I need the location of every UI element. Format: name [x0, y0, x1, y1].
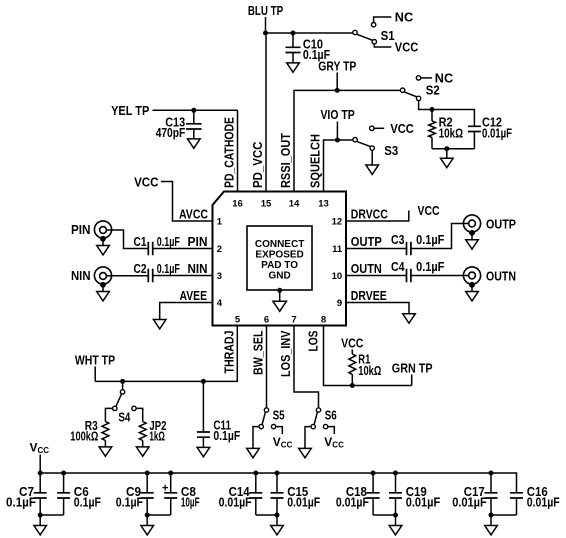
- node VCC (S6): [324, 435, 344, 450]
- svg-text:V: V: [324, 435, 332, 449]
- svg-text:0.1µF: 0.1µF: [416, 259, 444, 274]
- wire PIN to C1: [106, 230, 148, 249]
- ground (S3): [366, 165, 379, 174]
- pin numbers 12 11 10 9 (right): [332, 217, 343, 310]
- svg-text:0.01µF: 0.01µF: [287, 494, 320, 509]
- svg-text:14: 14: [289, 198, 300, 209]
- capacitor C4: [346, 259, 444, 282]
- capacitor C12: [432, 110, 512, 149]
- svg-text:10µF: 10µF: [181, 494, 200, 509]
- capacitor C18: [336, 471, 380, 516]
- resistor R1: [349, 350, 381, 386]
- capacitor C15: [271, 471, 321, 516]
- IC U1 16-pin package outline: [213, 192, 347, 326]
- wire pin8 net (LOS): [324, 326, 412, 389]
- ground (JP2): [136, 447, 149, 456]
- svg-text:V: V: [273, 435, 281, 449]
- svg-text:S6: S6: [325, 408, 337, 423]
- ground (OUTN connector): [466, 282, 479, 301]
- svg-text:AVEE: AVEE: [180, 288, 208, 303]
- wire cap pair ground join: [373, 513, 398, 526]
- connector OUTN (output SMA): [463, 267, 516, 284]
- node GRY TP: [318, 58, 356, 90]
- connector PIN (input SMA): [71, 221, 112, 238]
- wire VCC rail: [40, 473, 516, 493]
- svg-text:DRVEE: DRVEE: [351, 288, 387, 303]
- svg-text:VCC: VCC: [390, 121, 414, 136]
- svg-text:PIN: PIN: [188, 234, 208, 249]
- ground (PIN connector): [97, 236, 110, 255]
- svg-text:+: +: [162, 482, 168, 494]
- svg-text:10kΩ: 10kΩ: [439, 126, 464, 141]
- ground (S5): [247, 448, 260, 457]
- svg-text:WHT TP: WHT TP: [75, 352, 115, 367]
- wire cap pair ground join: [256, 513, 280, 526]
- ground (cap pair): [389, 526, 402, 535]
- svg-text:0.01µF: 0.01µF: [452, 494, 487, 509]
- svg-text:OUTP: OUTP: [351, 234, 382, 249]
- wire pin7 (LOS_INV) to S6: [294, 326, 319, 408]
- svg-text:15: 15: [261, 198, 272, 209]
- pin numbers 1-4 (left): [217, 217, 223, 310]
- svg-text:VCC: VCC: [134, 174, 159, 189]
- switch S5: [253, 408, 285, 449]
- ground (R2/C12): [441, 158, 454, 167]
- resistor JP2: [139, 414, 166, 447]
- svg-text:0.1µF: 0.1µF: [416, 232, 444, 247]
- svg-text:C2: C2: [134, 261, 147, 276]
- wire pin16 riser (PD_CATHODE): [191, 108, 237, 192]
- ground (AVEE): [153, 320, 166, 329]
- node VIO TP: [320, 107, 355, 140]
- svg-text:C1: C1: [134, 234, 147, 249]
- wire DRVEE (pin 9): [346, 303, 409, 314]
- resistor R3: [70, 414, 109, 447]
- svg-text:16: 16: [232, 198, 243, 209]
- pin numbers 5 6 7 8 (bottom): [235, 314, 326, 325]
- node VCC (AVCC pin 1): [134, 174, 212, 221]
- svg-text:0.1µF: 0.1µF: [157, 261, 180, 276]
- wire pin13 net (SQUELCH to S3): [324, 138, 354, 192]
- svg-text:PD_VCC: PD_VCC: [250, 141, 265, 188]
- ground (OUTP connector): [466, 230, 479, 249]
- ground (NIN connector): [97, 282, 110, 301]
- wire pin14 net (RSSI_OUT to S2): [294, 88, 403, 192]
- ground (S6): [299, 448, 312, 457]
- svg-text:5: 5: [235, 314, 241, 325]
- svg-text:VCC: VCC: [418, 203, 440, 218]
- switch S4: [105, 381, 142, 424]
- svg-text:S1: S1: [381, 28, 395, 43]
- svg-text:NC: NC: [395, 10, 414, 25]
- ground (C11): [197, 447, 210, 456]
- svg-text:2: 2: [217, 244, 222, 255]
- svg-text:OUTN: OUTN: [351, 261, 382, 276]
- svg-text:OUTP: OUTP: [486, 216, 516, 231]
- svg-text:100kΩ: 100kΩ: [70, 429, 98, 444]
- node YEL TP: [111, 103, 237, 118]
- wire AVEE (pin 4): [160, 303, 213, 320]
- capacitor C10: [286, 33, 331, 63]
- svg-text:3: 3: [217, 271, 222, 282]
- switch S1: [353, 17, 395, 47]
- capacitor C14: [219, 471, 263, 516]
- svg-text:THRADJ: THRADJ: [222, 331, 237, 374]
- svg-text:6: 6: [264, 314, 269, 325]
- ground (R3): [99, 447, 112, 456]
- svg-text:0.1µF: 0.1µF: [74, 494, 101, 509]
- wire pin6 (BW_SEL) to S5: [266, 326, 268, 408]
- wire cap pair ground join: [145, 513, 171, 526]
- svg-text:0.1µF: 0.1µF: [116, 494, 143, 509]
- svg-text:0.01µF: 0.01µF: [336, 494, 369, 509]
- svg-text:CC: CC: [281, 440, 293, 449]
- wire pin5 net (THRADJ): [95, 326, 237, 384]
- svg-text:0.01µF: 0.01µF: [527, 494, 560, 509]
- capacitor C8: [164, 471, 199, 516]
- svg-text:NIN: NIN: [71, 268, 91, 283]
- svg-text:10: 10: [332, 271, 343, 282]
- svg-text:LOS_INV: LOS_INV: [278, 330, 293, 377]
- pin numbers 16 15 14 13 (top): [232, 198, 329, 209]
- node VCC (S5): [273, 435, 293, 450]
- svg-text:S3: S3: [384, 143, 398, 158]
- exposed pad ground: [273, 288, 287, 312]
- switch S2: [400, 76, 439, 110]
- capacitor C2: [134, 261, 213, 282]
- svg-text:VIO TP: VIO TP: [320, 107, 355, 122]
- svg-text:V: V: [30, 441, 38, 455]
- svg-text:DRVCC: DRVCC: [351, 207, 388, 222]
- wire NIN to C2: [106, 275, 148, 277]
- wire R2/C12 bottom: [432, 146, 474, 158]
- svg-text:470pF: 470pF: [156, 125, 186, 140]
- capacitor C7: [6, 471, 47, 516]
- capacitor C19: [389, 471, 440, 516]
- svg-text:S5: S5: [273, 408, 285, 423]
- svg-text:1: 1: [217, 217, 223, 228]
- svg-text:PIN: PIN: [71, 222, 91, 237]
- ground (cap pair): [271, 526, 284, 535]
- svg-text:VCC: VCC: [395, 40, 419, 55]
- ground (DRVEE): [403, 314, 416, 323]
- svg-text:OUTN: OUTN: [486, 268, 516, 283]
- capacitor C11: [197, 381, 240, 447]
- svg-text:7: 7: [291, 314, 296, 325]
- wire cap pair ground join: [489, 513, 517, 526]
- capacitor C17: [452, 471, 497, 516]
- svg-text:NIN: NIN: [188, 261, 208, 276]
- wire BLU TP junction to S1 / pin 15 PD_VCC: [263, 31, 353, 192]
- node BLU TP: [248, 3, 284, 33]
- svg-text:BLU TP: BLU TP: [248, 3, 284, 18]
- ground (cap pair): [34, 526, 47, 535]
- svg-text:0.01µF: 0.01µF: [482, 126, 512, 141]
- capacitor C1: [134, 234, 213, 255]
- ground (cap pair): [141, 526, 154, 535]
- svg-text:0.01µF: 0.01µF: [406, 494, 441, 509]
- svg-text:SQUELCH: SQUELCH: [308, 134, 323, 188]
- svg-text:CC: CC: [38, 446, 50, 455]
- connector NIN (input SMA): [71, 267, 112, 284]
- wire C3 to OUTP connector: [411, 224, 469, 249]
- svg-text:0.1µF: 0.1µF: [213, 428, 240, 443]
- svg-text:0.1µF: 0.1µF: [157, 234, 180, 249]
- svg-text:GRN TP: GRN TP: [392, 360, 433, 375]
- svg-text:BW_SEL: BW_SEL: [251, 330, 266, 375]
- IC exposed pad note box: [247, 226, 312, 290]
- svg-text:C4: C4: [391, 259, 405, 274]
- svg-text:4: 4: [217, 298, 223, 309]
- resistor R2: [429, 110, 464, 149]
- capacitor C13: [156, 110, 202, 140]
- capacitor C16: [510, 484, 560, 515]
- wire cap pair ground join: [38, 513, 64, 526]
- ground (cap pair): [485, 526, 498, 535]
- svg-text:LOS: LOS: [305, 330, 320, 351]
- svg-text:11: 11: [332, 244, 343, 255]
- svg-text:0.01µF: 0.01µF: [219, 494, 252, 509]
- svg-text:9: 9: [337, 298, 342, 309]
- wire C4 to OUTN connector: [411, 275, 469, 277]
- ground (C13): [188, 139, 201, 148]
- switch S6: [305, 408, 337, 449]
- svg-text:GRY TP: GRY TP: [318, 58, 356, 73]
- capacitor C3: [346, 232, 444, 255]
- svg-text:NC: NC: [435, 71, 454, 86]
- svg-text:AVCC: AVCC: [179, 207, 208, 222]
- svg-text:8: 8: [321, 314, 326, 325]
- svg-text:0.1µF: 0.1µF: [6, 494, 36, 509]
- svg-text:12: 12: [332, 217, 343, 228]
- switch S3: [353, 126, 398, 165]
- svg-text:YEL TP: YEL TP: [111, 103, 149, 118]
- svg-text:RSSI_OUT: RSSI_OUT: [278, 133, 293, 188]
- node WHT TP: [75, 352, 115, 381]
- svg-text:S4: S4: [118, 409, 131, 424]
- node GRN TP: [392, 360, 433, 385]
- svg-text:10kΩ: 10kΩ: [358, 363, 381, 378]
- node A: R2/C12 top junction: [430, 107, 435, 112]
- node VCC (DRVCC pin 12): [346, 203, 440, 221]
- svg-text:CC: CC: [332, 440, 344, 449]
- capacitor C9: [116, 471, 154, 516]
- ground (C10): [287, 63, 300, 72]
- svg-text:EXPOSED: EXPOSED: [255, 249, 303, 260]
- svg-text:C3: C3: [391, 232, 405, 247]
- svg-text:13: 13: [318, 198, 329, 209]
- svg-text:VCC: VCC: [341, 336, 364, 351]
- svg-text:GND: GND: [268, 270, 290, 281]
- capacitor C6: [57, 471, 101, 516]
- node VCC (rail): [30, 441, 50, 473]
- connector OUTP (output SMA): [463, 215, 516, 232]
- svg-text:1kΩ: 1kΩ: [149, 429, 165, 444]
- svg-text:PD_CATHODE: PD_CATHODE: [222, 117, 237, 188]
